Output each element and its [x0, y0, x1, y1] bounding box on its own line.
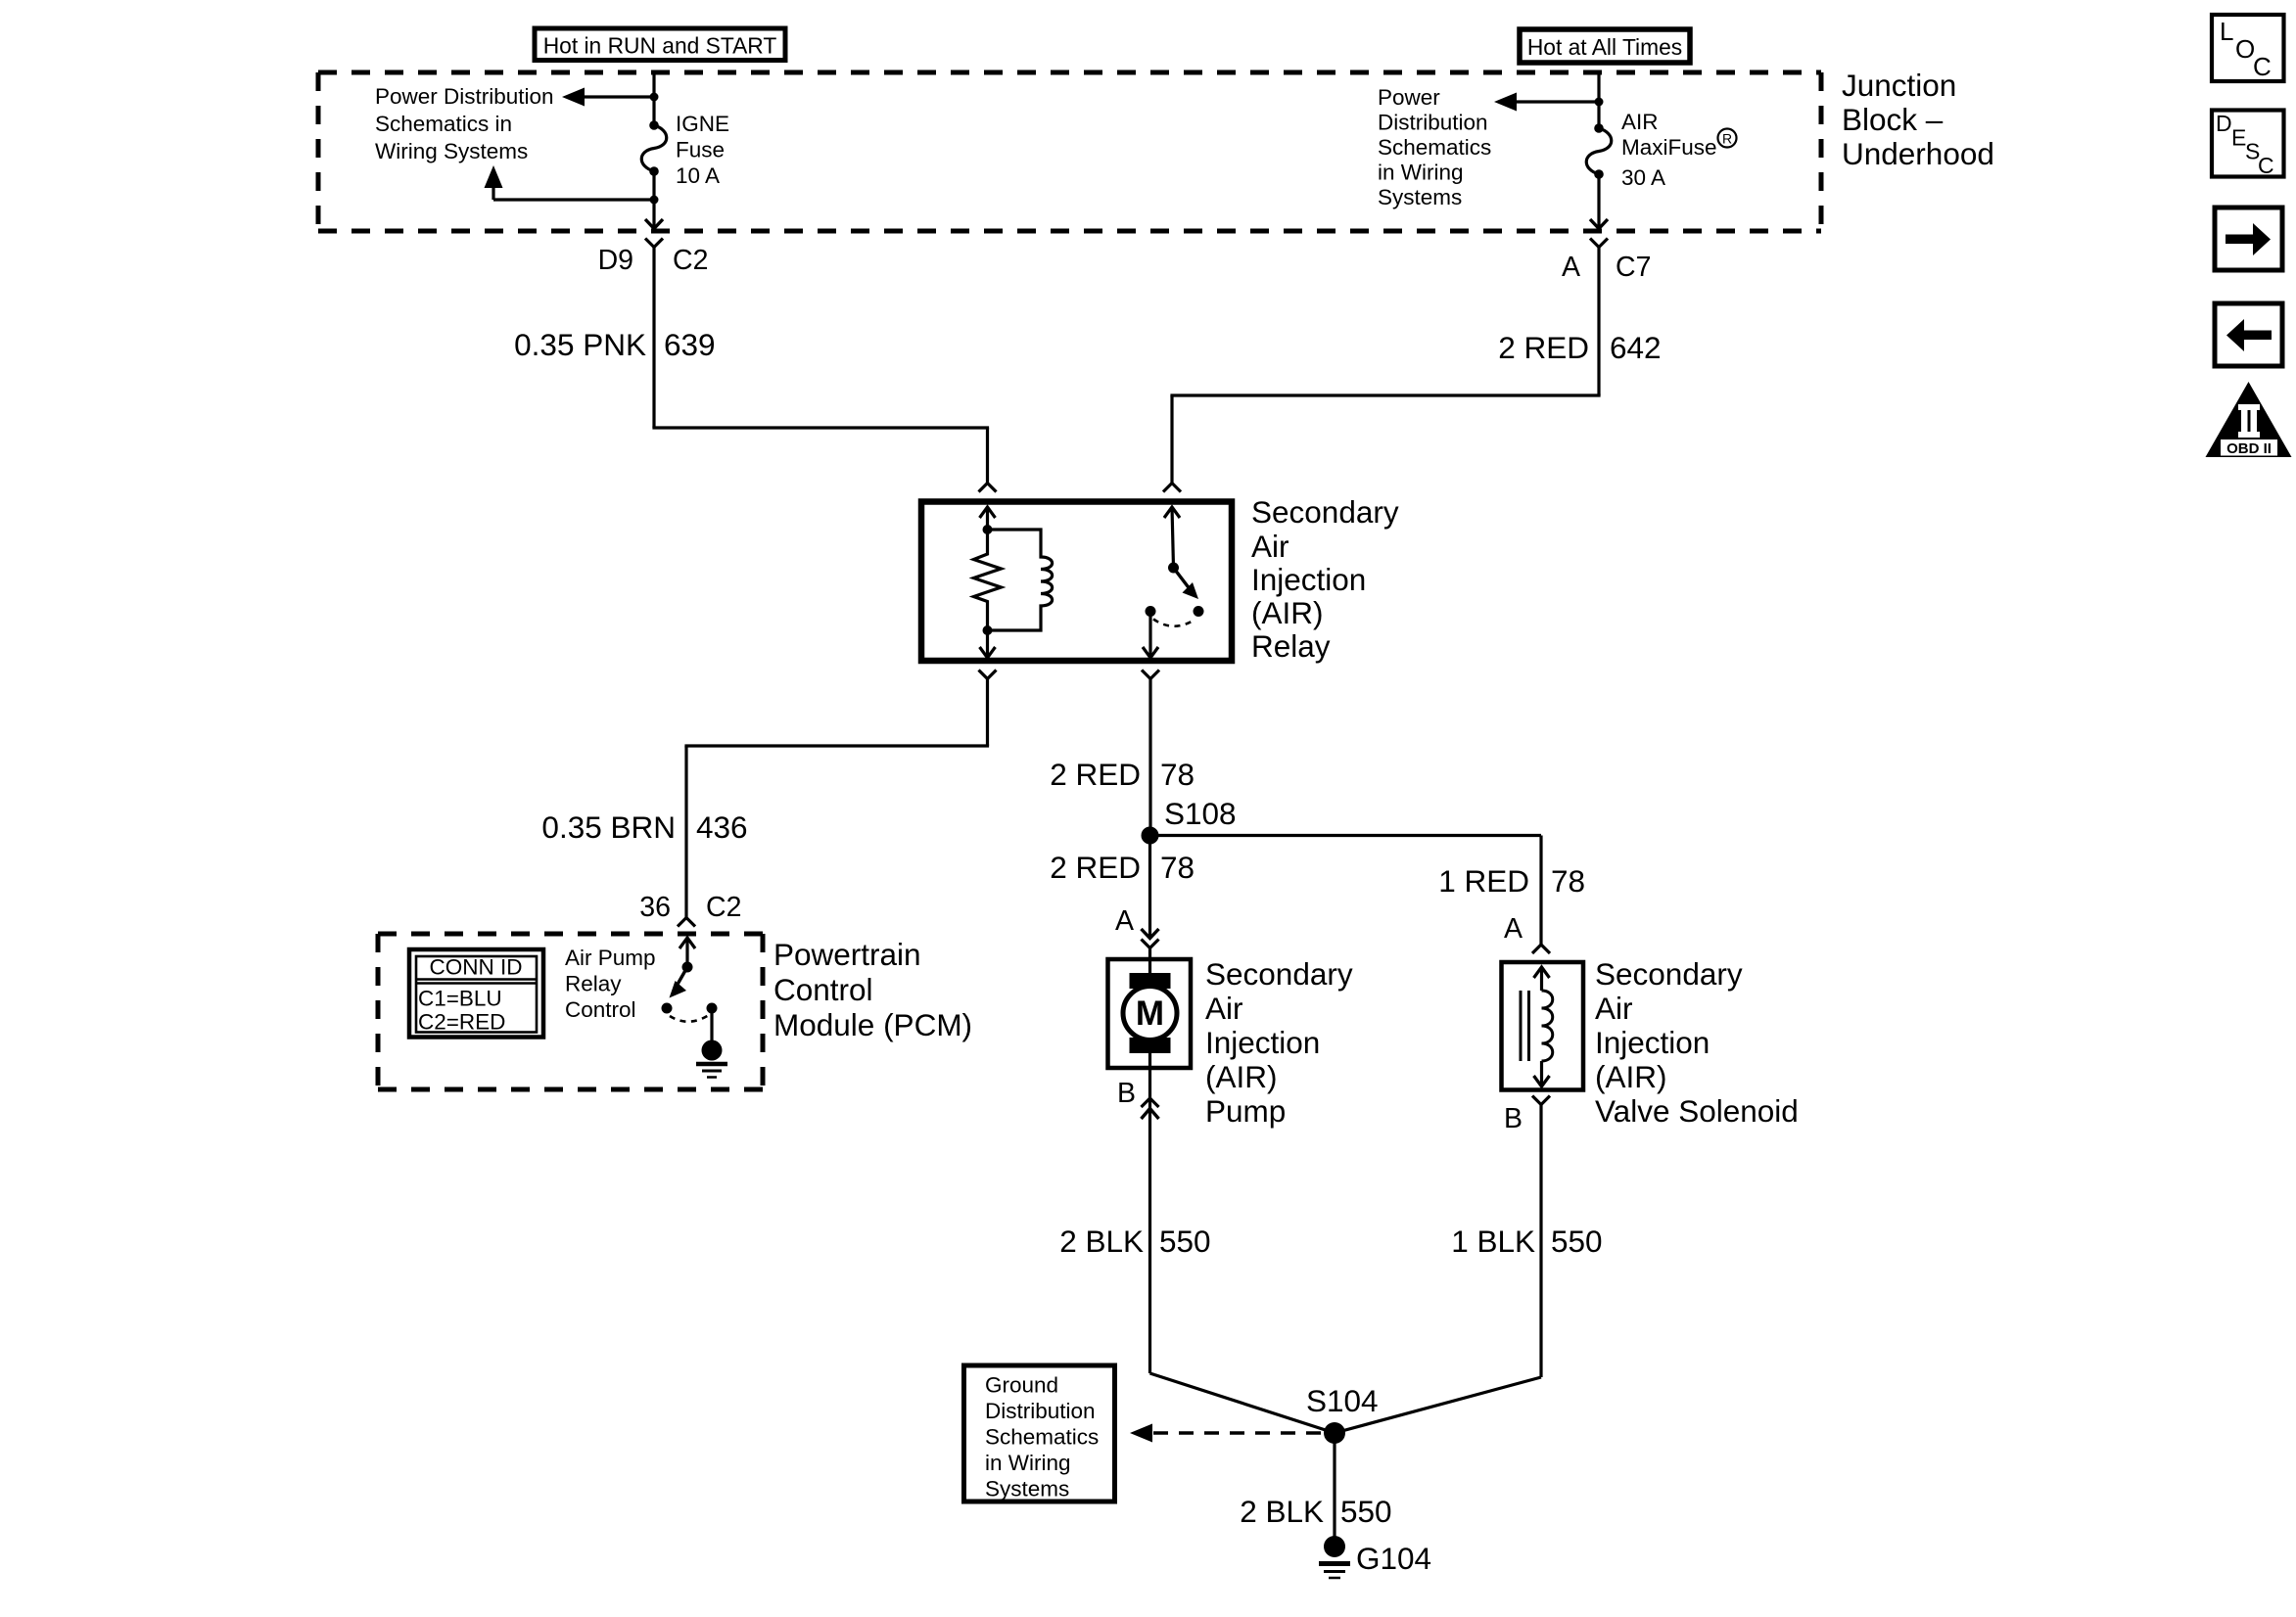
svg-text:C2=RED: C2=RED: [418, 1010, 505, 1035]
pump name label: [1205, 956, 1353, 1129]
solenoid branch: wire down from horizontal: [1539, 836, 1542, 946]
svg-text:550: 550: [1159, 1224, 1211, 1259]
wire label 1 RED 78: [1438, 863, 1585, 899]
wire from relay pin 87 down to S108: [1148, 679, 1151, 836]
svg-text:R: R: [1722, 131, 1732, 147]
junction block label: [1842, 68, 1994, 171]
wire label 0.35 PNK 639: [514, 327, 715, 362]
pin label A / C7: [1562, 252, 1651, 283]
svg-text:10 A: 10 A: [676, 163, 720, 188]
connector at pump pin A (arrow + fork): [1142, 929, 1159, 939]
wire 2 RED 642 down to relay: [1170, 248, 1600, 484]
sidebar LOC icon: [2212, 15, 2284, 81]
AIR MaxiFuse label: [1621, 110, 1717, 190]
svg-text:in Wiring: in Wiring: [985, 1451, 1071, 1475]
relay switch blade with arrowhead: [1174, 568, 1192, 590]
connector at solenoid pin B (fork): [1532, 1096, 1550, 1105]
svg-text:1 BLK: 1 BLK: [1451, 1224, 1535, 1259]
wire 0.35 PNK 639 down to relay: [652, 248, 989, 484]
svg-text:Relay: Relay: [565, 972, 622, 996]
coil (relay winding): [988, 530, 1053, 630]
svg-text:G104: G104: [1356, 1541, 1431, 1576]
svg-text:30 A: 30 A: [1621, 165, 1665, 190]
svg-text:Air: Air: [1251, 529, 1289, 564]
svg-text:CONN ID: CONN ID: [430, 955, 523, 980]
CONN ID table: [409, 949, 543, 1038]
svg-text:Hot at All Times: Hot at All Times: [1527, 34, 1682, 60]
header box Hot in RUN and START: [535, 28, 785, 61]
node: coil bottom: [983, 625, 993, 635]
resistor (relay suppression): [974, 530, 1002, 630]
wire pump B diagonal to S104: [1150, 1373, 1335, 1433]
wire from relay pin 85 to PCM: [684, 678, 989, 918]
svg-text:IGNE: IGNE: [676, 112, 729, 136]
wire S108 down to pump: [1148, 836, 1151, 939]
power distribution text (left): [375, 84, 554, 163]
wire: power distribution arrow (right side): [1512, 100, 1599, 103]
PCM name label: [773, 937, 972, 1042]
svg-text:S104: S104: [1306, 1383, 1379, 1418]
solenoid coil winding: [1542, 991, 1553, 1061]
svg-text:2 RED: 2 RED: [1050, 757, 1141, 792]
fuse IGNE 10 A: [649, 120, 659, 130]
header box Hot at All Times: [1520, 29, 1690, 63]
wire label 2 RED 78 (below S108): [1050, 850, 1195, 885]
relay output arrow inside box (bottom right): [1148, 612, 1151, 657]
connector at pump pin B (fork + arrow): [1148, 1068, 1151, 1373]
svg-text:36: 36: [639, 892, 671, 923]
relay switch pivot: [1168, 563, 1179, 574]
svg-text:Schematics: Schematics: [1378, 135, 1491, 160]
relay pin 30 connector (fork above box, right): [1163, 484, 1181, 492]
svg-text:Air: Air: [1595, 991, 1633, 1026]
svg-text:2 RED: 2 RED: [1050, 850, 1141, 885]
svg-text:1 RED: 1 RED: [1438, 863, 1529, 899]
svg-text:0.35 PNK: 0.35 PNK: [514, 327, 646, 362]
svg-text:S108: S108: [1164, 796, 1237, 831]
wire label 0.35 BRN 436: [541, 809, 747, 845]
wire S104 to G104: [1333, 1433, 1335, 1539]
air pump relay control label: [565, 946, 656, 1022]
svg-text:Block –: Block –: [1842, 102, 1944, 137]
connector at solenoid pin A (fork): [1532, 945, 1550, 953]
svg-text:Control: Control: [565, 997, 636, 1022]
power distribution text (right): [1378, 85, 1491, 209]
fuse AIR MaxiFuse 30 A: [1594, 123, 1604, 133]
solenoid arrow out (bottom): [1540, 1061, 1543, 1086]
svg-text:C2: C2: [706, 892, 741, 923]
svg-text:2 RED: 2 RED: [1498, 330, 1589, 365]
svg-text:Distribution: Distribution: [1378, 111, 1488, 135]
pin label D9 / C2: [598, 245, 709, 276]
svg-text:(AIR): (AIR): [1595, 1059, 1667, 1094]
pin label 36 / C2 at PCM: [639, 892, 741, 923]
svg-text:78: 78: [1160, 850, 1195, 885]
svg-text:MaxiFuse: MaxiFuse: [1621, 135, 1717, 160]
relay switch travel arc (dashed): [1153, 620, 1195, 626]
svg-text:A: A: [1504, 913, 1523, 945]
svg-text:C1=BLU: C1=BLU: [418, 987, 502, 1011]
motor lead top: [1148, 959, 1151, 977]
svg-text:Power: Power: [1378, 85, 1440, 110]
svg-text:Schematics in: Schematics in: [375, 112, 512, 136]
svg-text:Systems: Systems: [985, 1477, 1069, 1501]
solenoid core bars: [1520, 991, 1523, 1061]
svg-text:78: 78: [1160, 757, 1195, 792]
svg-text:2 BLK: 2 BLK: [1240, 1494, 1324, 1529]
node below IGNE fuse: [650, 196, 659, 205]
svg-text:Secondary: Secondary: [1205, 956, 1353, 992]
ground symbol inside PCM: [696, 1064, 727, 1078]
wire label 2 RED 642: [1498, 330, 1661, 365]
AIR relay box: [921, 502, 1232, 662]
svg-text:Pump: Pump: [1205, 1093, 1286, 1129]
node: coil top: [983, 525, 993, 534]
driver switch travel arc (dashed): [670, 1015, 709, 1022]
svg-text:C2: C2: [673, 245, 708, 276]
svg-text:Valve Solenoid: Valve Solenoid: [1595, 1093, 1799, 1129]
svg-text:Module (PCM): Module (PCM): [773, 1007, 972, 1042]
relay name label: [1251, 494, 1399, 664]
svg-text:0.35 BRN: 0.35 BRN: [541, 809, 676, 845]
svg-text:Secondary: Secondary: [1251, 494, 1399, 530]
svg-text:C: C: [2258, 153, 2274, 178]
connector C2 terminal D9 (arrow into fork at dashed line): [645, 219, 663, 229]
sidebar DESC icon: [2212, 111, 2284, 179]
svg-text:Air Pump: Air Pump: [565, 946, 656, 970]
node at MaxiFuse feed: [1595, 98, 1604, 107]
driver switch blade with arrowhead: [676, 967, 687, 988]
svg-text:in Wiring: in Wiring: [1378, 161, 1464, 185]
registered mark on MaxiFuse: [1718, 129, 1737, 148]
svg-text:AIR: AIR: [1621, 110, 1659, 134]
svg-text:C: C: [2253, 52, 2272, 81]
connector C2 pin 36 (fork at PCM box): [678, 918, 695, 927]
svg-text:Ground: Ground: [985, 1373, 1058, 1398]
svg-text:D: D: [2216, 111, 2232, 136]
relay switch contacts: [1194, 606, 1204, 617]
svg-text:Powertrain: Powertrain: [773, 937, 921, 972]
wire: power distribution arrow (upper): [580, 95, 654, 98]
svg-text:436: 436: [696, 809, 748, 845]
relay pin 85 connector (fork below box, left): [979, 670, 997, 679]
AIR pump box: [1108, 959, 1192, 1068]
wire label 2 BLK 550 (pump): [1059, 1224, 1210, 1259]
svg-text:Underhood: Underhood: [1842, 136, 1994, 171]
dashed reference arrow from S104 to ground distribution box: [1153, 1431, 1335, 1435]
svg-text:B: B: [1504, 1103, 1523, 1134]
wire label 2 RED 78 (above S108): [1050, 757, 1195, 792]
wire S108 to solenoid branch (horizontal): [1150, 834, 1542, 837]
sidebar OBD II icon: [2206, 382, 2292, 457]
relay pin 87 connector (fork below box, right): [1142, 670, 1159, 679]
svg-text:2 BLK: 2 BLK: [1059, 1224, 1144, 1259]
splice S108: [1142, 827, 1159, 845]
svg-text:78: 78: [1551, 863, 1585, 899]
air pump relay control driver arrow (inside PCM): [685, 938, 688, 967]
wire from Hot in RUN and START down through IGNE fuse: [652, 70, 655, 226]
svg-text:Relay: Relay: [1251, 628, 1331, 664]
svg-text:M: M: [1136, 994, 1164, 1033]
svg-text:Wiring Systems: Wiring Systems: [375, 139, 528, 163]
node at IGNE fuse top feed: [650, 93, 659, 102]
svg-text:Systems: Systems: [1378, 185, 1462, 209]
powertrain control module dashed box: [378, 934, 763, 1089]
svg-text:C7: C7: [1616, 252, 1651, 283]
svg-text:Injection: Injection: [1595, 1025, 1710, 1060]
wire solenoid B down and diagonal to S104: [1539, 1105, 1542, 1378]
driver switch contacts: [662, 1003, 673, 1014]
splice S104: [1324, 1422, 1345, 1444]
svg-text:Injection: Injection: [1205, 1025, 1320, 1060]
motor M symbol (brushes + circle): [1130, 973, 1171, 989]
connector C7 terminal A (arrow into fork at dashed line): [1590, 219, 1608, 229]
junction block - underhood (dashed box): [318, 72, 1821, 231]
wire from Hot at All Times down through AIR MaxiFuse: [1597, 70, 1600, 229]
wire label 1 BLK 550 (solenoid): [1451, 1224, 1602, 1259]
svg-text:Injection: Injection: [1251, 562, 1366, 597]
svg-text:D9: D9: [598, 245, 633, 276]
ground G104: [1324, 1536, 1345, 1557]
driver switch pivot: [682, 962, 693, 973]
svg-text:550: 550: [1551, 1224, 1603, 1259]
internal ground dot: [702, 1040, 723, 1061]
svg-text:A: A: [1562, 252, 1580, 283]
svg-text:(AIR): (AIR): [1205, 1059, 1278, 1094]
sidebar forward arrow icon: [2215, 208, 2282, 270]
relay switch common arrow inside box (right): [1172, 507, 1174, 568]
svg-text:(AIR): (AIR): [1251, 595, 1324, 630]
svg-text:Control: Control: [773, 972, 873, 1007]
ground distribution reference box: [964, 1365, 1115, 1501]
svg-text:Distribution: Distribution: [985, 1399, 1096, 1423]
motor lead bottom: [1148, 1053, 1151, 1068]
relay coil-pin arrow inside box (bottom left): [986, 630, 989, 656]
svg-text:L: L: [2220, 17, 2233, 46]
svg-text:550: 550: [1340, 1494, 1392, 1529]
svg-text:Power Distribution: Power Distribution: [375, 84, 554, 109]
wire: power distribution arrow (lower, up-arrow): [493, 198, 654, 201]
wire label 2 BLK 550 (ground): [1240, 1494, 1391, 1529]
relay coil-pin arrow inside box (left): [986, 507, 989, 530]
sidebar back arrow icon: [2215, 303, 2282, 366]
svg-text:A: A: [1115, 905, 1134, 937]
svg-text:Schematics: Schematics: [985, 1425, 1099, 1450]
relay pin 86 connector (fork above box, left): [979, 484, 997, 492]
solenoid name label: [1595, 956, 1799, 1129]
svg-text:Junction: Junction: [1842, 68, 1956, 103]
solenoid arrow in (top): [1540, 967, 1543, 991]
svg-text:642: 642: [1610, 330, 1662, 365]
IGNE fuse label: [676, 112, 729, 188]
svg-text:Hot in RUN and START: Hot in RUN and START: [543, 33, 777, 59]
svg-text:OBD II: OBD II: [2226, 440, 2272, 457]
svg-text:639: 639: [664, 327, 716, 362]
svg-text:Air: Air: [1205, 991, 1243, 1026]
svg-text:Secondary: Secondary: [1595, 956, 1743, 992]
AIR valve solenoid box: [1502, 962, 1584, 1090]
svg-text:B: B: [1117, 1078, 1136, 1109]
wire contact to internal ground: [710, 1008, 713, 1043]
svg-text:Fuse: Fuse: [676, 138, 725, 162]
